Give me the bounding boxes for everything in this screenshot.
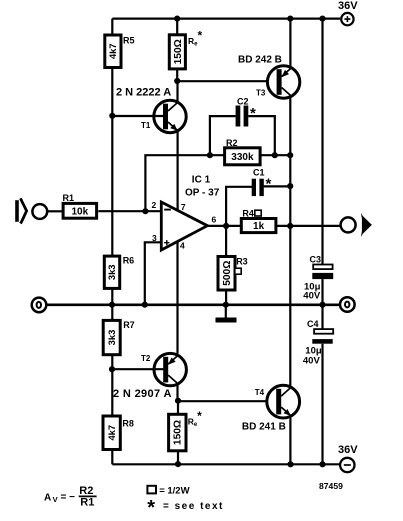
wire C3 bottom to 0V rail [321,279,323,305]
svg-text:= see text: = see text [163,501,224,512]
node C1 right on output line [287,183,293,189]
wire R3 top [225,226,227,257]
wire R1 to opamp pin2 [98,210,161,212]
output terminal [341,217,356,232]
svg-text:150Ω: 150Ω [173,420,184,445]
svg-text:330k: 330k [231,152,254,163]
svg-text:R7: R7 [123,320,135,330]
transistor Q4 (T4 BD241B) [267,385,300,418]
svg-text:6: 6 [212,215,217,225]
node C3 branch on +rail [319,16,325,22]
wire RE2 bottom [177,451,179,465]
svg-text:87459: 87459 [319,481,343,491]
node C1/R3 left on pin6 wire [223,223,229,229]
legend asterisk see text [147,497,224,519]
svg-text:7: 7 [181,202,186,212]
svg-text:2 N 2907 A: 2 N 2907 A [113,388,172,400]
node R4 right on output line [287,223,293,229]
node T4 emitter on bottom rail [287,461,293,467]
svg-text:36V: 36V [338,0,358,12]
wire T1 emitter to pin 7 [177,132,179,211]
wire to T3 base [177,80,267,82]
svg-text:4k7: 4k7 [106,425,117,441]
capacitor C1 [252,168,272,196]
node R3 on 0V rail [223,302,229,308]
wire R3 bottom [225,290,227,305]
node T1 base [109,113,115,119]
input terminal [32,204,47,219]
resistor R6 [104,256,134,289]
wire T2 collector down [176,383,178,401]
resistor R1 [63,193,97,218]
svg-text:4k7: 4k7 [107,43,118,59]
node T1 collector / RE1 bottom [174,78,180,84]
svg-text:36V: 36V [338,444,358,456]
svg-text:1k: 1k [253,221,265,232]
svg-text:T4: T4 [255,388,265,397]
svg-text:T1: T1 [141,121,151,130]
svg-text:OP - 37: OP - 37 [185,188,220,199]
svg-text:C3: C3 [310,254,322,264]
wire C2 right branch [248,116,274,155]
node pin2 / feedback [142,208,148,214]
svg-text:150Ω: 150Ω [173,39,184,64]
node C4 on bottom rail [319,461,325,467]
wire T2 base [112,368,163,370]
node RE2 bottom rail [175,461,181,467]
svg-text:C4: C4 [307,319,319,329]
svg-text:IC 1: IC 1 [192,175,211,186]
ground [225,305,227,318]
wire R2 right to output line [260,154,291,156]
wire RE1 bottom [176,69,178,81]
resistor RE2 (150 ohm) [169,409,203,451]
transistor Q1 (T1 2N2222A) [154,100,186,132]
svg-text:R3: R3 [236,256,248,266]
svg-text:= 1/2W: = 1/2W [159,485,189,496]
wire C4 bottom to bottom rail [321,344,323,465]
opamp plus mark [164,240,169,245]
wire R7 bottom to R8 top [111,355,113,416]
svg-text:500Ω: 500Ω [222,261,233,286]
svg-text:R8: R8 [122,419,134,429]
svg-text:2 N 2222 A: 2 N 2222 A [116,87,171,99]
svg-text:BD 242 B: BD 242 B [238,55,282,66]
wire RE2 top [177,401,179,415]
wire R6 bottom to 0V rail [111,288,113,304]
wire R4 to output terminal [276,225,341,227]
wire output node line (T3 collector down to T4 collector) [289,96,291,386]
svg-text:3k3: 3k3 [106,264,117,280]
svg-text:C2: C2 [237,97,249,107]
formula Av = -R2/R1 [44,485,97,508]
wire feedback from pin2 node up and right to R2 [145,155,224,211]
node T2 collector [175,398,181,404]
op-amp U1 triangle [161,202,207,250]
transistor Q2 (T2 2N2907A) [154,353,186,385]
svg-text:*: * [250,105,256,122]
terminal 0V right [340,297,355,312]
resistor R4 [241,208,276,232]
wire input to R1 [47,210,62,212]
wire R5 top [111,19,113,35]
svg-text:*: * [266,176,272,193]
wire pin3 to 0V rail [145,242,162,304]
wire T4 emitter down to bottom rail [289,415,291,464]
terminal +36V [341,13,353,25]
transistor Q3 (T3 BD242B) [267,66,299,98]
capacitor C2 [236,97,256,127]
svg-text:2: 2 [152,200,157,210]
resistor R5 [105,35,135,68]
capacitor C4 [303,319,333,367]
wire RE1 top [176,19,178,35]
wire T3 emitter to +rail [289,19,291,67]
resistor R3 [218,256,248,290]
node T2 base [109,366,115,372]
node C3/C4 on 0V rail [319,302,325,308]
wire 0V rail [46,303,340,306]
wire bottom -36V rail [112,463,340,465]
resistor R2 [225,138,261,165]
node R6/R7 on 0V rail [109,302,115,308]
terminal -36V [340,458,354,472]
node C2/R2 right [272,152,278,158]
svg-text:= −: = − [61,492,76,503]
wire 0V rail to R7 [111,305,113,321]
svg-text:40V: 40V [303,291,321,302]
svg-text:C1: C1 [253,168,265,178]
wire C1 right branch [264,185,291,187]
resistor R7 [103,320,135,355]
svg-text:R2: R2 [226,138,238,148]
wire T1 base [112,115,163,117]
input arrow symbol [15,200,19,222]
svg-text:*: * [147,497,155,519]
wire pin6 to R4 [207,225,241,227]
wire pin4 to T2 emitter [176,242,178,354]
resistor R8 [103,416,134,450]
wire C2 left branch [210,116,236,155]
wire T1 collector up [176,80,178,102]
terminal 0V left [32,298,47,313]
svg-text:4: 4 [180,241,185,251]
wire R5 bottom to R6 top [111,68,113,257]
svg-text:3k3: 3k3 [106,330,117,346]
resistor RE1 (150 ohm) [169,29,202,69]
svg-text:R6: R6 [123,256,135,266]
node RE1 top on +rail [174,16,180,22]
svg-text:A: A [44,492,51,503]
svg-text:10k: 10k [71,206,88,217]
wire T2 collector to T4 base [178,400,267,402]
wire C1 left branch [226,187,252,226]
legend half-watt square [147,485,189,496]
opamp minus mark [164,209,171,211]
svg-text:T3: T3 [256,89,266,98]
svg-text:V: V [53,495,58,504]
node feedback on output line [287,152,293,158]
svg-text:R1: R1 [80,496,94,508]
svg-text:R2: R2 [79,485,93,497]
capacitor C3 [303,254,333,301]
node feedback left of R2 [207,152,213,158]
svg-text:R4: R4 [242,208,254,218]
svg-text:40V: 40V [303,356,321,367]
wire +rail down to C3 [321,19,323,265]
node pin3 on 0V rail [142,302,148,308]
svg-text:R1: R1 [63,193,75,203]
svg-text:R5: R5 [123,36,135,46]
wire R8 bottom corner to bottom rail [111,450,113,465]
svg-text:BD 241 B: BD 241 B [242,422,286,433]
svg-text:T2: T2 [141,354,151,363]
node T3 emitter on +rail [287,16,293,22]
output arrow (filled) [361,213,372,237]
wire +36V top rail [112,18,340,20]
wire 0V rail to C4 [321,305,323,329]
